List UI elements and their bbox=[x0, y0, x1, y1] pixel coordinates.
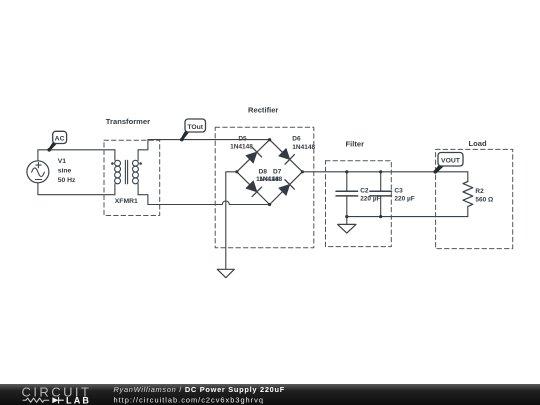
footer url line bbox=[114, 396, 264, 405]
wire V1 bottom to transformer primary bbox=[38, 183, 115, 195]
dashed box Filter bbox=[326, 161, 392, 247]
diode D6 (top-right arm) bbox=[279, 149, 295, 165]
svg-text:1N4148: 1N4148 bbox=[259, 176, 282, 183]
svg-text:1N4148: 1N4148 bbox=[230, 143, 253, 150]
svg-text:VOUT: VOUT bbox=[441, 158, 461, 165]
transformer XFMR1 primary winding bbox=[115, 150, 121, 195]
svg-text:C3: C3 bbox=[394, 188, 403, 195]
section title Load bbox=[469, 139, 488, 148]
net flag TOut bbox=[180, 119, 206, 141]
section title Rectifier bbox=[248, 106, 278, 115]
capacitor C2 bbox=[336, 172, 358, 217]
wire filter bottom rail to load return bbox=[347, 216, 468, 218]
svg-text:50 Hz: 50 Hz bbox=[58, 177, 76, 184]
junction node bottom vertex bbox=[268, 203, 271, 206]
logo LAB text bbox=[66, 395, 91, 405]
svg-text:TOut: TOut bbox=[187, 124, 203, 131]
svg-text:LAB: LAB bbox=[66, 395, 91, 405]
junction node C2 bottom bbox=[345, 215, 348, 218]
junction node C3 top bbox=[379, 170, 382, 173]
net flag VOUT bbox=[434, 153, 464, 174]
wire rectifier output rail to load bbox=[302, 171, 467, 173]
svg-text:V1: V1 bbox=[58, 158, 67, 165]
diode D5 (left-top arm) bbox=[246, 147, 262, 163]
svg-text:D7: D7 bbox=[273, 168, 282, 175]
wire transformer secondary bottom to rectifier (hop over ground wire) bbox=[138, 195, 270, 205]
transformer XFMR1 core bbox=[125, 160, 127, 184]
label D8 D7 bbox=[259, 168, 282, 175]
svg-text:Load: Load bbox=[469, 139, 488, 148]
transformer XFMR1 polarity dots bbox=[111, 162, 142, 165]
bridge diamond wires bbox=[237, 140, 303, 205]
svg-text:D6: D6 bbox=[292, 136, 301, 143]
section title Transformer bbox=[106, 117, 150, 126]
net flag AC bbox=[47, 131, 66, 151]
dashed box Transformer bbox=[104, 140, 160, 215]
ground (filter) bbox=[338, 217, 356, 234]
svg-text:C2: C2 bbox=[360, 188, 369, 195]
wire V1 top to transformer primary bbox=[38, 150, 115, 161]
wire transformer secondary top to rectifier bbox=[138, 140, 270, 150]
overlapping value labels 1N4148 of D7 and D8 bbox=[256, 176, 282, 183]
transformer XFMR1 secondary winding bbox=[133, 150, 139, 195]
footer bar bbox=[0, 384, 540, 405]
svg-text:Transformer: Transformer bbox=[106, 117, 150, 126]
diode D7 (bottom-right arm) bbox=[279, 180, 295, 196]
svg-text:R2: R2 bbox=[475, 188, 484, 195]
label D6 1N4148 bbox=[292, 136, 315, 151]
diode D8 (left-bottom arm) bbox=[246, 181, 262, 197]
junction node left vertex bbox=[235, 170, 238, 173]
junction node C2 top bbox=[345, 170, 348, 173]
svg-text:sine: sine bbox=[58, 167, 72, 174]
junction node C3 bottom bbox=[379, 215, 382, 218]
svg-text:AC: AC bbox=[55, 136, 65, 143]
label D5 1N4148 bbox=[230, 135, 253, 150]
dashed box Load bbox=[436, 149, 513, 248]
ground (rectifier) bbox=[217, 269, 234, 277]
svg-text:Rectifier: Rectifier bbox=[248, 106, 278, 115]
junction node right vertex bbox=[301, 170, 304, 173]
footer title line bbox=[114, 385, 285, 394]
svg-text:XFMR1: XFMR1 bbox=[115, 198, 138, 205]
logo CIRCUIT text bbox=[22, 385, 92, 400]
wire bridge left vertex to ground bbox=[226, 172, 237, 269]
svg-text:560 Ω: 560 Ω bbox=[475, 197, 493, 204]
resistor R2 bbox=[463, 172, 473, 217]
svg-text:D8: D8 bbox=[259, 168, 268, 175]
section title Filter bbox=[346, 140, 365, 149]
logo schematic squiggle: resistor bbox=[23, 398, 49, 402]
logo schematic diode bbox=[52, 397, 63, 403]
junction node top vertex bbox=[268, 138, 271, 141]
voltage source V1 bbox=[27, 161, 49, 183]
svg-text:1N4148: 1N4148 bbox=[292, 144, 315, 151]
svg-text:Filter: Filter bbox=[346, 140, 365, 149]
dashed box Rectifier bbox=[215, 127, 314, 248]
label V1 sine 50 Hz bbox=[58, 158, 76, 184]
capacitor C3 bbox=[370, 172, 392, 217]
label R2 560 Ohm bbox=[475, 188, 493, 204]
label C2 220 uF bbox=[360, 188, 380, 203]
svg-text:http://circuitlab.com/c2cv6xb3: http://circuitlab.com/c2cv6xb3ghrvq bbox=[114, 396, 264, 405]
label C3 220 uF bbox=[394, 188, 414, 203]
label XFMR1 bbox=[115, 198, 138, 205]
svg-text:D5: D5 bbox=[238, 135, 247, 142]
svg-text:220 µF: 220 µF bbox=[394, 195, 414, 202]
svg-text:RyanWilliamson / DC Power Supp: RyanWilliamson / DC Power Supply 220uF bbox=[114, 385, 285, 394]
